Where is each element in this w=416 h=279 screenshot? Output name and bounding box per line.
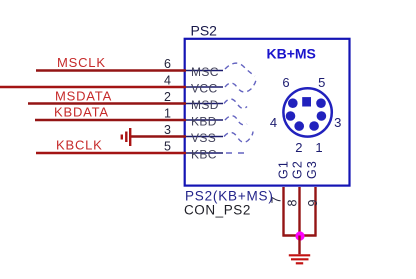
DIN pin 1 dot bbox=[309, 121, 319, 131]
dashed link KBD to pin1 bbox=[225, 116, 247, 125]
wire pin G3 down bbox=[314, 187, 316, 237]
ground GND1 (left, rotated) bbox=[122, 128, 130, 146]
dashed link KBC to pin5 bbox=[226, 152, 250, 154]
svg-text:MSD: MSD bbox=[191, 98, 219, 112]
pin name KBC with line bbox=[186, 152, 223, 154]
wire pin G1 down bbox=[282, 187, 284, 237]
wire VCC (pin 4) bbox=[0, 86, 186, 88]
svg-text:G3: G3 bbox=[305, 160, 319, 179]
svg-text:3: 3 bbox=[334, 115, 341, 130]
junction dot bbox=[295, 231, 304, 240]
svg-text:KBC: KBC bbox=[191, 148, 217, 162]
DIN pin 2 dot bbox=[294, 121, 304, 131]
svg-text:KBDATA: KBDATA bbox=[54, 105, 109, 120]
svg-text:G1: G1 bbox=[277, 160, 291, 179]
DIN pin 3 dot bbox=[317, 111, 327, 121]
pin name KBD with line bbox=[186, 119, 223, 121]
svg-text:2: 2 bbox=[164, 90, 171, 104]
wire MSCLK (pin 6) bbox=[36, 69, 186, 71]
svg-text:VSS: VSS bbox=[191, 131, 216, 145]
DIN shield notch bbox=[302, 97, 311, 106]
pin name VCC with line bbox=[186, 86, 223, 88]
svg-text:2: 2 bbox=[295, 140, 302, 155]
pin name MSD with line bbox=[186, 103, 223, 105]
DIN pin 6 dot bbox=[288, 98, 298, 108]
DIN pin 5 dot bbox=[316, 98, 326, 108]
svg-text:KBD: KBD bbox=[191, 115, 217, 129]
pin name MSC with line bbox=[186, 70, 223, 72]
svg-text:PS2(KB+MS): PS2(KB+MS) bbox=[185, 189, 274, 204]
wire MSDATA (pin 2) bbox=[28, 102, 186, 104]
svg-text:G2: G2 bbox=[290, 160, 304, 179]
ground GND2 bbox=[289, 255, 310, 263]
dashed link MSC to pin6 bbox=[225, 63, 255, 76]
svg-text:6: 6 bbox=[282, 75, 289, 90]
dashed link VSS to pin3 bbox=[224, 132, 253, 143]
svg-text:5: 5 bbox=[164, 140, 171, 154]
svg-text:CON_PS2: CON_PS2 bbox=[184, 203, 251, 218]
svg-text:MSCLK: MSCLK bbox=[57, 55, 106, 70]
DIN pin 4 dot bbox=[286, 111, 296, 121]
wire bottom bus bbox=[283, 234, 317, 236]
svg-text:9: 9 bbox=[306, 200, 320, 207]
svg-text:MSDATA: MSDATA bbox=[55, 89, 112, 104]
svg-text:MSC: MSC bbox=[191, 65, 219, 79]
svg-text:4: 4 bbox=[270, 115, 277, 130]
wire to ground bbox=[298, 236, 300, 255]
connector box U (CON_PS2) bbox=[185, 39, 350, 186]
wire VSS (pin 3) bbox=[130, 135, 186, 137]
dashed link MSD to pin2 bbox=[224, 99, 247, 108]
mini-DIN connector circle bbox=[283, 88, 331, 136]
svg-text:1: 1 bbox=[164, 107, 171, 121]
svg-text:5: 5 bbox=[318, 75, 325, 90]
svg-text:VCC: VCC bbox=[191, 82, 218, 96]
svg-text:1: 1 bbox=[315, 140, 322, 155]
svg-text:3: 3 bbox=[164, 123, 171, 137]
wire KBDATA (pin 1) bbox=[35, 119, 186, 121]
svg-text:4: 4 bbox=[164, 74, 171, 88]
wire KBCLK (pin 5) bbox=[36, 152, 186, 154]
pin name VSS with line bbox=[186, 136, 223, 138]
svg-text:6: 6 bbox=[164, 57, 171, 71]
wire pin G2 down bbox=[298, 187, 300, 237]
svg-text:KB+MS: KB+MS bbox=[267, 46, 316, 62]
svg-text:8: 8 bbox=[286, 200, 300, 207]
svg-text:KBCLK: KBCLK bbox=[56, 138, 103, 153]
dashed link VCC to pin4 bbox=[225, 79, 256, 92]
svg-text:PS2: PS2 bbox=[191, 23, 218, 39]
